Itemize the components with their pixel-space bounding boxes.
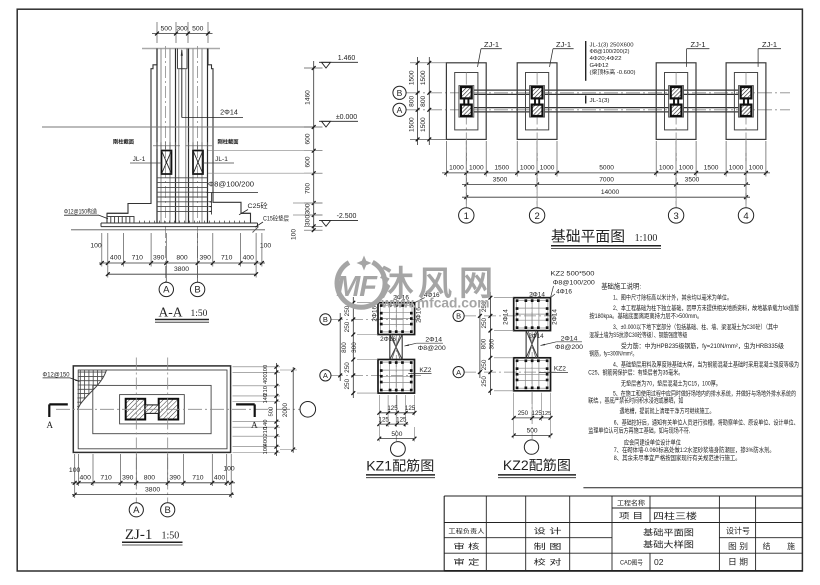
svg-text:结: 结 [763, 541, 771, 551]
svg-text:250: 250 [344, 321, 351, 332]
svg-text:125: 125 [532, 410, 543, 417]
KZ2 axis line A [464, 371, 557, 373]
svg-text:KZ2 500*500: KZ2 500*500 [551, 271, 595, 278]
svg-text:基础大样图: 基础大样图 [643, 540, 694, 550]
KZ1 right rotated label 2phi16 [416, 307, 423, 323]
svg-text:250: 250 [518, 410, 529, 417]
svg-text:390: 390 [200, 255, 212, 262]
svg-text:Φ8@100/200: Φ8@100/200 [208, 182, 254, 189]
svg-text:3800: 3800 [145, 487, 160, 494]
svg-text:制 图: 制 图 [534, 541, 562, 551]
svg-text:ZJ-1: ZJ-1 [125, 527, 153, 543]
svg-text:3500: 3500 [493, 176, 508, 183]
section cut mark A right [236, 404, 258, 430]
svg-text:1:50: 1:50 [191, 309, 208, 319]
label JL-1 right [203, 156, 234, 163]
svg-text:3800: 3800 [174, 266, 189, 273]
svg-text:C25砼: C25砼 [248, 201, 268, 210]
svg-text:1000: 1000 [729, 164, 744, 171]
svg-text:800: 800 [176, 255, 188, 262]
KZ1 vertical centerline [395, 295, 397, 441]
KZ2 bottom dimension rows [512, 393, 553, 439]
svg-text:基础平面图: 基础平面图 [551, 229, 625, 246]
KZ1 neck with cross bracing [390, 335, 402, 360]
svg-text:390: 390 [169, 474, 181, 481]
plan axis circle B [393, 86, 406, 99]
svg-text:250: 250 [344, 362, 351, 373]
svg-text:ZJ-1: ZJ-1 [484, 40, 499, 49]
svg-text:1460: 1460 [305, 90, 312, 105]
beam JL-1 left cross-section [162, 151, 172, 175]
svg-text:1000: 1000 [449, 164, 464, 171]
ZJ-1 plan centerlines [56, 358, 300, 503]
KZ2 header labels KZ2 500*500 [551, 271, 596, 298]
svg-text:KZ2: KZ2 [554, 365, 566, 372]
svg-text:710: 710 [192, 474, 204, 481]
svg-text:7000: 7000 [599, 176, 614, 183]
KZ2 upper column section [514, 298, 551, 331]
svg-text:500: 500 [527, 428, 538, 435]
svg-text:2000: 2000 [282, 402, 289, 417]
svg-text:www.mfcad.com: www.mfcad.com [380, 296, 489, 311]
svg-text:800: 800 [144, 474, 156, 481]
svg-text:2Φ14: 2Φ14 [561, 335, 578, 342]
KZ2 left dimension chain 250/250/300/250/250 [478, 292, 514, 395]
svg-text:1000: 1000 [749, 164, 764, 171]
svg-text:4: 4 [743, 211, 748, 222]
svg-text:基础平面图: 基础平面图 [643, 528, 694, 538]
svg-text:校 对: 校 对 [534, 557, 563, 567]
svg-text:遇地槽，提前就上清理干净方可继续施工。: 遇地槽，提前就上清理干净方可继续施工。 [620, 406, 715, 415]
svg-text:5000: 5000 [599, 164, 614, 171]
elevation marker +-0.000 [319, 114, 358, 127]
footing ZJ-1 #4 outer [726, 63, 766, 140]
svg-text:300: 300 [305, 203, 312, 214]
title block project name fields [617, 498, 697, 521]
svg-text:250: 250 [481, 359, 488, 370]
svg-text:210: 210 [263, 427, 269, 437]
svg-text:250: 250 [344, 378, 351, 389]
footing ZJ-1 #3 outer [656, 63, 696, 140]
svg-text:02: 02 [654, 557, 664, 567]
column pair at footing #1 [459, 86, 474, 118]
svg-text:C25、钢筋网保护层：有垫层者为35毫米。: C25、钢筋网保护层：有垫层者为35毫米。 [588, 367, 683, 376]
KZ1 upper column section [378, 303, 415, 335]
svg-text:2Φ16: 2Φ16 [380, 336, 396, 343]
svg-text:400: 400 [243, 255, 255, 262]
svg-text:140: 140 [263, 394, 269, 404]
svg-text:6、基础挖好后，通知有关单位人员进行验槽，将勘察单位、原设单: 6、基础挖好后，通知有关单位人员进行验槽，将勘察单位、原设单位、设计单位、 [614, 418, 799, 427]
svg-text:1500: 1500 [420, 117, 427, 132]
svg-text:800: 800 [408, 95, 415, 106]
svg-text:B: B [194, 285, 200, 296]
KZ1 lower column section [378, 360, 415, 394]
footing ZJ-1 #1 outer [446, 63, 486, 140]
svg-text:A: A [456, 368, 461, 377]
KZ2 axis circle B [453, 310, 464, 321]
ZJ-1 plan column cage frame [120, 395, 185, 424]
svg-text:1500: 1500 [408, 117, 415, 132]
svg-text:1.460: 1.460 [338, 55, 356, 62]
svg-text:600: 600 [305, 133, 312, 144]
svg-text:300: 300 [488, 338, 495, 349]
KZ2 right rotated label 2phi14 [551, 309, 558, 325]
svg-text:A-A: A-A [159, 305, 183, 320]
svg-text:710: 710 [132, 255, 144, 262]
svg-text:1000: 1000 [520, 164, 535, 171]
svg-text:100: 100 [69, 467, 81, 474]
KZ2 axis line B [464, 315, 557, 317]
svg-text:2Φ16: 2Φ16 [371, 305, 378, 321]
svg-text:3500: 3500 [685, 176, 700, 183]
svg-text:Φ12@150构造: Φ12@150构造 [64, 208, 97, 216]
KZ1 axis line B [331, 318, 421, 320]
svg-text:100: 100 [90, 243, 102, 250]
plan axis circle A [393, 103, 406, 116]
footing ZJ-1 #2 outer [517, 63, 557, 140]
svg-text:125: 125 [387, 405, 398, 412]
plan left dimension chain 1500/800/1500 [408, 57, 446, 145]
svg-text:2、本工程基础为柱下独立基础，因甲方未提供相关地质资料，故地: 2、本工程基础为柱下独立基础，因甲方未提供相关地质资料，故地基承载力fck值暂 [613, 303, 799, 312]
section A-A pier outline with steps [107, 49, 251, 224]
svg-text:无垫层者为70，垫层混凝土为C15，100厚。: 无垫层者为70，垫层混凝土为C15，100厚。 [621, 378, 721, 387]
svg-text:1500: 1500 [704, 164, 719, 171]
section A-A bottom dimension chain [90, 233, 271, 278]
beam JL-1(3) label lower [586, 96, 610, 105]
svg-text:审 定: 审 定 [453, 557, 480, 567]
svg-text:125: 125 [379, 416, 390, 423]
svg-text:100: 100 [223, 466, 235, 473]
svg-text:混凝土墙为S5抗渗C30砼等级）、钢筋强度等级: 混凝土墙为S5抗渗C30砼等级）、钢筋强度等级 [589, 330, 687, 339]
svg-text:JL-1: JL-1 [133, 156, 146, 163]
svg-text:受力筋：中为HPB235级钢筋，fy=210N/mm²，虫为: 受力筋：中为HPB235级钢筋，fy=210N/mm²，虫为HRB335级 [621, 341, 785, 350]
footing ZJ-1 #1 inner step [455, 73, 478, 130]
KZ1 neck label 2phi16 [380, 336, 396, 343]
svg-text:500: 500 [269, 407, 275, 417]
KZ2 label 4phi16 [551, 288, 573, 297]
svg-text:G4Φ12: G4Φ12 [590, 63, 609, 69]
plan axis circle 2 [529, 141, 544, 223]
svg-text:390: 390 [122, 474, 134, 481]
footing hatch grid [157, 178, 208, 212]
svg-text:100: 100 [291, 229, 298, 240]
svg-text:A: A [163, 285, 170, 296]
svg-text:施: 施 [787, 541, 795, 551]
footing ZJ-1 #4 inner step [734, 73, 757, 130]
KZ1 left rotated label 2phi16 [371, 305, 378, 321]
svg-text:1500: 1500 [494, 164, 509, 171]
KZ2 top label 2phi14 [529, 291, 545, 298]
svg-text:JL-1(3): JL-1(3) [590, 98, 610, 104]
svg-text:400: 400 [263, 374, 269, 384]
svg-text:ZJ-1: ZJ-1 [556, 40, 571, 49]
KZ2 bottom axis circle [524, 440, 538, 454]
svg-text:2Φ14: 2Φ14 [425, 337, 442, 344]
svg-text:1000: 1000 [540, 164, 555, 171]
svg-text:125: 125 [405, 405, 416, 412]
svg-text:B: B [323, 315, 328, 324]
svg-text:B: B [165, 505, 171, 516]
title foundation plan 1:100 [551, 229, 661, 249]
KZ2 neck label 2phi14 [528, 333, 544, 340]
left construction mesh strip [107, 217, 134, 224]
title block right fields [726, 526, 795, 567]
svg-text:监理单位认可后方再施工基础，如与现场不符,: 监理单位认可后方再施工基础，如与现场不符, [588, 426, 690, 435]
svg-text:2Φ14: 2Φ14 [529, 291, 545, 298]
svg-text:2Φ14: 2Φ14 [503, 309, 510, 325]
svg-text:C15砼垫层: C15砼垫层 [263, 214, 289, 223]
ground line under footing with break [71, 227, 265, 233]
elevation marker -2.500 [319, 213, 358, 226]
svg-text:钢筋，fy=300N/mm²。: 钢筋，fy=300N/mm²。 [589, 349, 637, 358]
KZ1 label 4phi16 [415, 292, 440, 303]
svg-text:应会同建设单位设计单位: 应会同建设单位设计单位 [624, 438, 681, 447]
KZ2 vertical centerline [531, 292, 533, 439]
svg-text:(梁顶标高 -0.600): (梁顶标高 -0.600) [590, 68, 636, 76]
svg-text:±0.000: ±0.000 [336, 114, 357, 121]
svg-text:4Φ20;4Φ22: 4Φ20;4Φ22 [590, 56, 622, 62]
label JL-1 left [130, 156, 162, 163]
svg-text:按180kpa。基础底面离距离持力层不>500mm。: 按180kpa。基础底面离距离持力层不>500mm。 [589, 311, 702, 320]
svg-text:JL-1: JL-1 [215, 156, 228, 163]
svg-text:4Φ16: 4Φ16 [556, 288, 572, 295]
label C15 bedding [255, 214, 289, 228]
section A-A left column rebar lines [157, 49, 176, 223]
title A-A 1:50 [155, 305, 209, 323]
column pair at footing #4 [739, 86, 754, 118]
svg-text:Φ8@100/200: Φ8@100/200 [553, 280, 595, 287]
section A-A column centerlines [166, 46, 198, 282]
svg-text:300: 300 [305, 215, 312, 226]
ZJ-1 plan hatched column right [159, 399, 179, 420]
leader 2phi14 [181, 49, 243, 118]
footing #1 centerline [465, 73, 467, 208]
KZ1 bottom axis circle [391, 442, 406, 457]
plan axis circle 3 [668, 141, 683, 223]
svg-text:300: 300 [176, 26, 188, 33]
svg-text:14000: 14000 [601, 189, 620, 196]
KZ2 left rotated label 2phi14 [503, 309, 510, 325]
plan axis circle 1 [459, 141, 474, 223]
KZ2 neck labels 2phi14 phi8@200 [541, 335, 584, 351]
svg-text:项 目: 项 目 [619, 512, 643, 521]
KZ2 lower column section [514, 358, 551, 391]
svg-text:ZJ-1: ZJ-1 [762, 40, 777, 49]
plan axis line A [406, 109, 790, 111]
KZ2 label KZ2 on lower section [539, 365, 568, 372]
svg-text:8、其余未尽事宜严格按国家现行有关规范进行施工。: 8、其余未尽事宜严格按国家现行有关规范进行施工。 [614, 453, 741, 462]
svg-text:2Φ14: 2Φ14 [528, 333, 544, 340]
foundation construction notes [588, 281, 799, 461]
ZJ-1 plan outer rectangles [73, 366, 230, 453]
svg-text:5、在施工和使用过程中应同时做好场地内的排水系统，并做好与场: 5、在施工和使用过程中应同时做好场地内的排水系统，并做好与场地外排水系统的 [613, 389, 796, 398]
svg-text:800: 800 [341, 342, 348, 353]
svg-text:400: 400 [110, 255, 122, 262]
svg-text:2Φ14: 2Φ14 [551, 309, 558, 325]
svg-text:KZ1配筋图: KZ1配筋图 [366, 458, 434, 474]
KZ1 bottom dimension rows [377, 395, 416, 442]
footing slab and C15 bedding [101, 213, 258, 226]
column pair at footing #2 [530, 86, 545, 118]
svg-text:设 计: 设 计 [534, 526, 563, 536]
svg-text:Φ8@200: Φ8@200 [555, 344, 583, 351]
beam JL-1 right cross-section [193, 151, 203, 175]
svg-text:600: 600 [305, 156, 312, 167]
svg-text:1、图中尺寸除标高以米计外，其余均以毫米为单位。: 1、图中尺寸除标高以米计外，其余均以毫米为单位。 [613, 292, 732, 301]
title KZ2 reinforcement [498, 457, 576, 478]
section A-A middle notch between columns [178, 49, 188, 223]
title block left labels [448, 526, 562, 567]
KZ1 axis circle A [320, 370, 331, 381]
svg-text:刚柱截面: 刚柱截面 [113, 138, 134, 146]
svg-text:A: A [133, 505, 140, 516]
svg-text:300: 300 [351, 342, 358, 353]
svg-text:刚柱截面: 刚柱截面 [218, 138, 239, 146]
ground level line +-0.000 [42, 126, 314, 128]
svg-text:500: 500 [161, 26, 173, 33]
section cut mark A left [47, 404, 68, 430]
plan bottom dimension chains [442, 141, 770, 201]
beam JL-1 annotation block [586, 41, 636, 81]
footing ZJ-1 #3 inner step [665, 73, 688, 130]
svg-text:700: 700 [305, 183, 312, 194]
svg-text:3: 3 [673, 211, 678, 222]
svg-text:设计号: 设计号 [726, 526, 750, 536]
ZJ-1 right dimension chain [233, 363, 298, 456]
svg-text:JL-1(3) 250X600: JL-1(3) 250X600 [590, 42, 634, 48]
svg-text:KZ2配筋图: KZ2配筋图 [503, 457, 571, 473]
footing #4 centerline [745, 73, 747, 208]
svg-text:250: 250 [481, 317, 488, 328]
svg-text:Φ8@100/200(2): Φ8@100/200(2) [590, 49, 630, 55]
svg-text:日 期: 日 期 [728, 558, 748, 567]
ZJ-1 axis circle B bottom [161, 503, 175, 517]
ZJ-1 plan hatched column left [126, 399, 146, 420]
svg-text:710: 710 [221, 255, 233, 262]
svg-text:ZJ-1: ZJ-1 [691, 40, 706, 49]
svg-text:A: A [323, 371, 328, 380]
svg-text:四柱三楼: 四柱三楼 [653, 510, 697, 521]
section A-A top dimension 500/300/500 [152, 22, 213, 43]
svg-text:3、±0.000以下地下室部分（包括基础、柱、墙、梁混凝土为: 3、±0.000以下地下室部分（包括基础、柱、墙、梁混凝土为C30砼）（其中 [613, 322, 778, 331]
svg-text:CAD图号: CAD图号 [620, 558, 643, 566]
ZJ-1 axis circle A bottom [129, 503, 143, 517]
ZJ-1 leader label #4 [758, 40, 781, 67]
elevation marker 1.460 [319, 55, 358, 68]
section A-A right column rebar lines [189, 49, 208, 223]
title block grid [444, 496, 802, 571]
svg-text:1000: 1000 [469, 164, 484, 171]
svg-text:工程负责人: 工程负责人 [448, 528, 484, 536]
axis circle A (section) [159, 266, 173, 297]
title ZJ-1 1:50 [122, 527, 183, 545]
svg-text:1:100: 1:100 [635, 233, 658, 244]
svg-text:500: 500 [391, 431, 402, 438]
svg-text:2Φ14: 2Φ14 [220, 108, 238, 117]
KZ1 left dimension chain 250/250/300/250/250 [338, 297, 378, 398]
svg-text:-2.500: -2.500 [337, 213, 357, 220]
svg-text:710: 710 [100, 474, 112, 481]
svg-text:800: 800 [420, 95, 427, 106]
column pair at footing #3 [669, 86, 684, 118]
label column-section right [186, 138, 239, 150]
ZJ-1 right axis circle [300, 402, 316, 418]
svg-text:1500: 1500 [420, 70, 427, 85]
label phi8@100/200 [207, 182, 259, 215]
footing #3 centerline [675, 73, 677, 208]
svg-text:100: 100 [263, 445, 269, 455]
svg-text:1000: 1000 [679, 164, 694, 171]
svg-text:基础施工说明:: 基础施工说明: [601, 281, 641, 290]
svg-text:500: 500 [192, 26, 204, 33]
svg-text:250: 250 [481, 376, 488, 387]
KZ1 label KZ2 on lower section [408, 367, 431, 374]
KZ1 neck labels 2phi14 phi8@200 [405, 337, 446, 353]
svg-text:审 核: 审 核 [453, 541, 480, 551]
ZJ-1 leader label #2 [550, 40, 574, 67]
svg-text:Φ8@200: Φ8@200 [418, 345, 446, 352]
ZJ-1 bottom dimension chains [69, 454, 235, 498]
ZJ-1 plan mesh hatch with break line [77, 369, 108, 410]
svg-text:B: B [456, 312, 461, 321]
beam JL-1 upper (axis B) [460, 90, 752, 94]
svg-text:7、在砌体墙-0.060标高处做1:2水泥砂浆墙身防潮层，掺: 7、在砌体墙-0.060标高处做1:2水泥砂浆墙身防潮层，掺3%防水剂。 [614, 445, 775, 454]
svg-text:B: B [397, 88, 403, 98]
ZJ-1 plan hatched neck [145, 405, 159, 414]
KZ2 axis circle A [453, 367, 464, 378]
label phi12@150 mesh [64, 208, 108, 219]
svg-text:Φ12@150: Φ12@150 [43, 371, 70, 378]
svg-text:390: 390 [153, 255, 165, 262]
KZ1 axis circle B [320, 314, 331, 325]
svg-text:1:50: 1:50 [162, 531, 180, 542]
KZ1 top label 2phi16 [393, 295, 409, 303]
svg-text:A: A [47, 420, 54, 430]
ZJ-1 leader label #3 [687, 40, 710, 67]
svg-text:100: 100 [263, 365, 269, 375]
svg-text:100: 100 [260, 243, 272, 250]
title KZ1 reinforcement [366, 458, 435, 478]
svg-text:KZ2: KZ2 [419, 367, 431, 374]
svg-text:2: 2 [534, 211, 539, 222]
title block drawing name [620, 528, 694, 567]
svg-text:4、基础垫层用料及厚度除基础大样，当为钢筋混凝土基础时采用混: 4、基础垫层用料及厚度除基础大样，当为钢筋混凝土基础时采用混凝土强度等级为 [613, 360, 799, 369]
footing ZJ-1 #2 inner step [526, 73, 549, 130]
axis circle B (section) [190, 266, 204, 297]
section A-A elevation dimension chain [208, 61, 323, 240]
ZJ-1 plan label phi12@150 [43, 371, 80, 381]
svg-text:125: 125 [542, 411, 551, 417]
svg-text:1: 1 [464, 211, 469, 222]
footing #2 centerline [536, 73, 538, 208]
plan axis circle 4 [738, 141, 753, 223]
beam JL-1 lower (axis A) [460, 108, 752, 112]
label column-section left [113, 138, 180, 150]
svg-text:A: A [397, 105, 403, 115]
section A-A column top line [142, 48, 220, 50]
svg-text:800: 800 [481, 338, 488, 349]
svg-text:联结.，基底严禁长时间积水浸泡或暴晒，如: 联结.，基底严禁长时间积水浸泡或暴晒，如 [588, 395, 683, 404]
svg-text:400: 400 [214, 474, 226, 481]
notes panel bottom line [583, 487, 802, 489]
svg-text:125: 125 [396, 416, 407, 423]
svg-text:图 别: 图 别 [728, 542, 748, 551]
ZJ-1 leader label #1 [478, 40, 502, 67]
KZ2 neck with cross bracing [526, 331, 538, 358]
KZ1 axis line A [331, 374, 421, 376]
plan axis line B [406, 92, 790, 94]
watermark mfcad logo and text [336, 256, 493, 311]
